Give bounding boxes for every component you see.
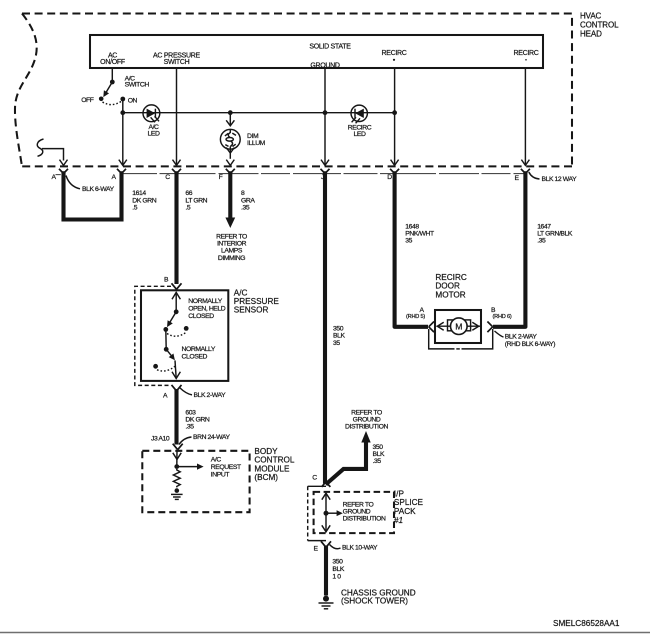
- svg-text:(RHD BLK 6-WAY): (RHD BLK 6-WAY): [505, 341, 556, 348]
- motor brush right: [465, 320, 471, 331]
- connector terminal flare pin A feed: [59, 169, 68, 174]
- LED D2 RECIRC LED: [351, 105, 367, 123]
- pin label: AC PRESSURE SWITCH: [153, 52, 201, 66]
- label: I/P SPLICE PACK #1: [394, 489, 424, 524]
- connector terminal flare sensor pin A: [172, 385, 182, 391]
- svg-text:SWITCH: SWITCH: [164, 59, 190, 66]
- svg-text:REQUEST: REQUEST: [211, 464, 241, 471]
- wire: AC ON/OFF pin stub: [111, 68, 113, 82]
- svg-text:1648: 1648: [405, 223, 419, 230]
- label: BODY CONTROL MODULE (BCM): [254, 447, 294, 482]
- note: REFER TO INTERIOR LAMPS DIMMING: [216, 234, 247, 262]
- svg-text:MODULE: MODULE: [254, 464, 290, 473]
- svg-text:DK GRN: DK GRN: [132, 197, 156, 204]
- label: CHASSIS GROUND (SHOCK TOWER): [341, 588, 416, 605]
- svg-text:SENSOR: SENSOR: [234, 305, 269, 314]
- label: BLK 2-WAY (RHD BLK 6-WAY): [495, 331, 556, 348]
- label: HVAC CONTROL HEAD: [580, 12, 619, 39]
- connector terminal flare splice pin E: [321, 541, 331, 547]
- svg-text:DISTRIBUTION: DISTRIBUTION: [343, 516, 386, 523]
- ground (BCM internal): [171, 488, 183, 499]
- arrow: refer to interior lamps dimming: [225, 218, 235, 229]
- label: A/C LED: [148, 124, 160, 138]
- splice internal: vertical wire with arrows: [322, 493, 330, 532]
- node: BCM input junction: [174, 464, 179, 469]
- svg-text:MOTOR: MOTOR: [435, 290, 465, 299]
- svg-text:350: 350: [332, 558, 343, 565]
- connector bracket below motor (BLK 2-WAY): [429, 329, 493, 349]
- svg-text:.5: .5: [132, 205, 137, 212]
- wire: sensor middle segment: [165, 329, 167, 349]
- node: splice junction: [324, 511, 329, 516]
- svg-text:INPUT: INPUT: [211, 472, 230, 479]
- label: BLK 6-WAY connector: [66, 176, 115, 194]
- wire: AC PRESSURE SWITCH pin drop: [176, 68, 178, 166]
- note: REFER TO GROUND DISTRIBUTION (upper): [345, 410, 388, 431]
- svg-text:M: M: [455, 321, 462, 331]
- A/C pressure sensor box: [141, 290, 228, 381]
- svg-text:1 0: 1 0: [332, 573, 341, 580]
- svg-text:ILLUM: ILLUM: [247, 140, 266, 147]
- value label: 66 LT GRN .5: [185, 190, 207, 212]
- svg-text:CONTROL: CONTROL: [254, 456, 294, 465]
- svg-text:BLK 10-WAY: BLK 10-WAY: [342, 545, 378, 552]
- svg-text:GRA: GRA: [241, 197, 255, 204]
- connector terminal flare motor pin B: [487, 322, 492, 333]
- svg-text:BLK 2-WAY: BLK 2-WAY: [194, 392, 227, 399]
- svg-text:.35: .35: [241, 205, 250, 212]
- wire: circuit 350 splice to chassis ground: [324, 546, 328, 596]
- svg-text:(RHD 6): (RHD 6): [492, 314, 511, 320]
- svg-text:SWITCH: SWITCH: [125, 82, 150, 89]
- label: BLK 2-WAY: [180, 388, 227, 400]
- value label: 1614 DK GRN .5: [132, 190, 156, 212]
- svg-text:I/P: I/P: [394, 489, 405, 498]
- resistor R1 (BCM pull-down): [173, 469, 180, 487]
- node: junction ground/LED bus: [323, 110, 328, 115]
- svg-text:NORMALLY: NORMALLY: [182, 346, 216, 353]
- node: junction RECIRC leg/LED bus: [392, 110, 397, 115]
- svg-text:LAMPS: LAMPS: [221, 248, 243, 255]
- svg-text:.5: .5: [185, 205, 190, 212]
- connector terminal flare pin D: [390, 169, 399, 174]
- svg-text:35: 35: [405, 238, 412, 245]
- svg-text:BLK 6-WAY: BLK 6-WAY: [82, 186, 115, 193]
- svg-text:CLOSED: CLOSED: [182, 353, 208, 360]
- svg-text:LT GRN/BLK: LT GRN/BLK: [537, 230, 573, 237]
- svg-text:C: C: [312, 475, 317, 482]
- label: RECIRC DOOR MOTOR: [435, 273, 466, 299]
- value label: 1647 LT GRN/BLK .35: [537, 223, 573, 244]
- HVAC control head enclosure (dashed outline): [15, 14, 572, 167]
- svg-text:DISTRIBUTION: DISTRIBUTION: [345, 424, 388, 431]
- svg-text:HEAD: HEAD: [580, 29, 602, 38]
- pin label: RECIRC (right): [513, 50, 538, 61]
- svg-text:#1: #1: [394, 516, 403, 525]
- motor internal: travel line with arrows: [437, 322, 481, 330]
- svg-text:GROUND: GROUND: [343, 509, 371, 516]
- svg-text:SOLID STATE: SOLID STATE: [309, 43, 351, 50]
- wire: 1614 jumper A to A (thick U): [64, 171, 122, 219]
- svg-text:.35: .35: [537, 238, 546, 245]
- svg-text:BLK: BLK: [332, 566, 344, 573]
- svg-text:.35: .35: [185, 423, 194, 430]
- LED D1 A/C LED: [143, 105, 160, 122]
- label: NORMALLY CLOSED: [182, 346, 216, 361]
- motor armature circle with M: [451, 318, 468, 335]
- label: RECIRC LED: [348, 124, 372, 138]
- solid state control box U1: [90, 35, 543, 68]
- arrow: A/C request input signal: [177, 464, 204, 470]
- wire: circuit 1648 to motor pin A (thick elbow): [395, 171, 428, 327]
- connector terminal flare pin J: [321, 169, 330, 174]
- arrow: switch leg exits head: [119, 160, 127, 166]
- svg-text:F: F: [219, 174, 223, 181]
- svg-text:REFER TO: REFER TO: [351, 410, 382, 417]
- label: A/C PRESSURE SENSOR: [234, 288, 280, 314]
- arrow: splice to ground distribution (right): [326, 510, 343, 516]
- connector terminal flare BCM pin: [173, 444, 183, 450]
- node: sensor middle contact: [164, 347, 169, 352]
- svg-text:.35: .35: [373, 458, 382, 465]
- value label: 8 GRA .35: [241, 190, 255, 212]
- arrow: ground wire exits head: [321, 160, 329, 166]
- wire: ON contact to LED bus junction: [122, 99, 124, 113]
- svg-text:BLK: BLK: [333, 333, 345, 340]
- recirc door motor M1 box: [435, 310, 481, 343]
- svg-text:LED: LED: [148, 130, 160, 137]
- wire: 350 branch to ground distribution (thick elbow): [326, 442, 366, 485]
- arrow: refer to ground distribution (up): [361, 431, 370, 443]
- svg-text:ON/OFF: ON/OFF: [100, 59, 125, 66]
- label: DIM ILLUM: [247, 133, 266, 147]
- svg-text:SPLICE: SPLICE: [394, 498, 424, 507]
- I/P splice pack #1 box (dashed): [314, 492, 394, 533]
- connector bracket BLK 10-WAY (dash-dot): [308, 486, 326, 540]
- svg-text:350: 350: [333, 326, 344, 333]
- svg-text:RECIRC: RECIRC: [381, 50, 406, 57]
- connector terminal flare pin A switch: [117, 169, 126, 174]
- switch S1 A/C SWITCH: [99, 80, 125, 105]
- svg-text:BLK 2-WAY: BLK 2-WAY: [505, 334, 538, 341]
- svg-text:66: 66: [185, 190, 192, 197]
- wire: circuit 603 sensor to BCM: [174, 389, 178, 445]
- svg-text:NORMALLY: NORMALLY: [188, 298, 222, 305]
- body control module box (dashed): [142, 451, 249, 512]
- BCM internal: entry wire and arrow: [173, 451, 181, 467]
- svg-text:C: C: [165, 174, 170, 181]
- arrow: dimming wire exits head: [226, 160, 234, 166]
- pin A (motor): [406, 307, 425, 320]
- sensor internal: exit arrow down: [172, 360, 180, 378]
- wire: RECIRC left pin drop: [394, 68, 396, 166]
- svg-text:A/C: A/C: [211, 457, 222, 464]
- connector terminal flare pin C: [172, 169, 181, 174]
- node: sensor upper contact: [174, 309, 179, 314]
- note: REFER TO GROUND DISTRIBUTION (splice): [343, 501, 386, 522]
- svg-text:CONTROL: CONTROL: [580, 21, 619, 30]
- arrow: pressure switch wire exits head: [173, 160, 181, 166]
- svg-text:BLK 12 WAY: BLK 12 WAY: [542, 176, 578, 183]
- wire: GROUND pin drop: [324, 68, 326, 166]
- switch arm 1 (normally open, held closed): [163, 312, 188, 336]
- connector terminal flare splice pin C: [322, 482, 331, 487]
- switch arm 2 (normally closed): [153, 349, 177, 371]
- pin label: RECIRC (left): [381, 50, 406, 61]
- svg-text:1647: 1647: [537, 223, 551, 230]
- label: BRN 24-WAY: [179, 434, 230, 445]
- value label: 350 BLK .35 (branch): [373, 444, 385, 465]
- arrow: recirc right wire exits head: [521, 160, 529, 166]
- arrow: recirc wire exits head: [391, 160, 399, 166]
- svg-text:35: 35: [333, 340, 340, 347]
- ground G101 chassis ground symbol: [319, 596, 334, 609]
- wire: feed with continuation squiggle: [37, 139, 63, 161]
- wire: circuit 1647 to motor pin B (thick elbow): [493, 171, 525, 327]
- svg-text:HVAC: HVAC: [580, 12, 602, 21]
- wire: LED bus horizontal: [123, 112, 395, 114]
- svg-text:LED: LED: [354, 131, 366, 138]
- pin label: AC ON/OFF: [100, 52, 125, 66]
- connector terminal flare sensor pin B: [172, 283, 182, 289]
- svg-text:LT GRN: LT GRN: [185, 197, 207, 204]
- svg-text:RECIRC: RECIRC: [513, 50, 538, 57]
- svg-text:REFER TO: REFER TO: [216, 234, 247, 241]
- wire: A/C switch leg drop to pin A: [122, 113, 124, 166]
- wire: circuit 350 ground main drop: [323, 171, 327, 483]
- svg-text:(RHD 5): (RHD 5): [406, 314, 425, 320]
- svg-text:INTERIOR: INTERIOR: [217, 241, 247, 248]
- value label: 350 BLK 35 (main): [333, 326, 345, 347]
- wire: circuit 66 to pressure sensor: [174, 171, 178, 284]
- svg-text:1614: 1614: [132, 190, 146, 197]
- svg-text:PNK/WHT: PNK/WHT: [405, 230, 434, 237]
- label: A/C REQUEST INPUT: [211, 457, 241, 479]
- svg-text:BRN 24-WAY: BRN 24-WAY: [193, 434, 230, 441]
- connector terminal flare pin F: [226, 169, 235, 174]
- svg-text:SMELC86528AA1: SMELC86528AA1: [553, 619, 620, 628]
- value label: 603 DK GRN .35: [185, 410, 209, 431]
- svg-text:(SHOCK TOWER): (SHOCK TOWER): [341, 597, 408, 606]
- svg-text:(BCM): (BCM): [254, 473, 278, 482]
- svg-text:D: D: [387, 174, 392, 181]
- value label: 350 BLK 1 0: [332, 558, 344, 580]
- svg-text:BLK: BLK: [373, 451, 385, 458]
- svg-text:350: 350: [373, 444, 384, 451]
- connector terminal flare motor pin A: [429, 322, 434, 333]
- connector terminal flare pin E: [521, 169, 530, 174]
- svg-text:OPEN, HELD: OPEN, HELD: [188, 306, 225, 313]
- svg-text:OFF: OFF: [81, 97, 94, 104]
- svg-text:REFER TO: REFER TO: [343, 501, 374, 508]
- node: junction DIM ILLUM tap: [228, 110, 233, 115]
- wire: circuit 8 dimming stub: [228, 171, 232, 218]
- lamp L1 DIM ILLUM: [220, 113, 240, 159]
- svg-text:ON: ON: [128, 98, 138, 105]
- label: A/C SWITCH: [125, 76, 150, 89]
- motor brush left: [448, 320, 454, 331]
- connector face stub at pin A: [56, 174, 61, 176]
- connector bracket BLK 2-WAY (dashed): [135, 286, 171, 385]
- value label: 1648 PNK/WHT 35: [405, 223, 434, 244]
- svg-text:DIMMING: DIMMING: [218, 255, 245, 262]
- connector face line BLK 12-WAY: [123, 173, 525, 175]
- svg-text:J3 A10: J3 A10: [151, 435, 170, 442]
- label: NORMALLY OPEN, HELD CLOSED: [188, 298, 225, 320]
- wire: RECIRC right pin drop: [524, 68, 526, 166]
- pin B (motor): [491, 307, 512, 320]
- svg-text:PACK: PACK: [394, 507, 416, 516]
- arrow: feed wire exits head: [60, 160, 68, 166]
- sensor internal: entry arrow up: [172, 292, 180, 311]
- svg-text:GROUND: GROUND: [353, 417, 381, 424]
- svg-text:CLOSED: CLOSED: [188, 313, 214, 320]
- svg-text:BODY: BODY: [254, 447, 278, 456]
- label: BLK 10-WAY: [330, 545, 378, 552]
- node: junction at ON leg: [120, 110, 125, 115]
- label: BLK 12 WAY connector: [529, 172, 577, 183]
